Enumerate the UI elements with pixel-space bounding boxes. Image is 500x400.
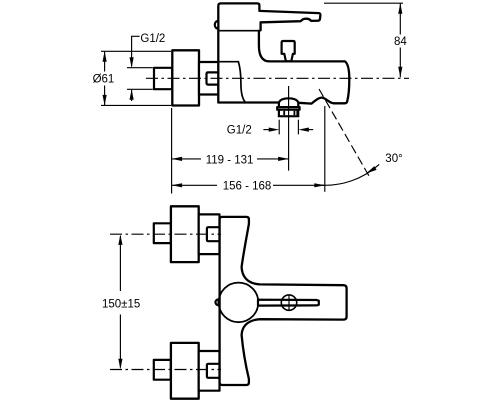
wall escutcheon (side view) xyxy=(172,50,199,105)
mixer body bar with lever handle (front view silhouette) xyxy=(220,217,347,385)
wall plane extension line xyxy=(171,108,173,194)
dimension line Ø61 upper segment xyxy=(104,51,106,71)
arrow down Ø61 xyxy=(103,95,107,106)
connection nut (side view) xyxy=(199,62,219,95)
bottom connection nut (front view) xyxy=(199,351,220,391)
svg-text:150±15: 150±15 xyxy=(102,298,140,310)
svg-text:119 - 131: 119 - 131 xyxy=(206,154,254,166)
dimension line 84 upper segment xyxy=(399,3,401,34)
mixer body with lever (side view outline) xyxy=(218,3,349,103)
svg-text:G1/2: G1/2 xyxy=(140,33,165,45)
arrow down to stub top xyxy=(130,57,134,67)
top wall escutcheon (front view) xyxy=(171,206,199,262)
spout G1/2 threaded connector (side view) xyxy=(278,110,300,118)
set-screw bump on column back (side view) xyxy=(215,21,219,29)
lever base joint line (side view) xyxy=(220,30,260,32)
arrow up Ø61 xyxy=(103,51,107,62)
spout pivot vertical line xyxy=(324,106,326,192)
arrow right to thread left edge xyxy=(263,129,269,131)
arrowhead on arc xyxy=(366,166,377,173)
svg-text:Ø61: Ø61 xyxy=(93,74,115,86)
bottom wall escutcheon (front view) xyxy=(171,343,199,399)
cartridge cover circle (front view) xyxy=(219,283,259,323)
nut inner collar (side view) xyxy=(207,72,219,84)
arrow left to thread right edge xyxy=(309,129,313,131)
diverter knob (side view) xyxy=(282,41,295,61)
handle screw head (front view) xyxy=(281,295,296,310)
spout outlet dome (side view) xyxy=(279,98,298,107)
extension line stub bottom xyxy=(127,88,153,90)
leader line G1/2 top xyxy=(132,36,140,66)
temperature limiter bump on bar left edge (front view) xyxy=(215,299,218,305)
extension line stub top xyxy=(127,67,153,69)
spout axis extension line xyxy=(288,86,290,171)
extension line spout thread right xyxy=(297,120,299,135)
arrow up 84 xyxy=(398,3,402,14)
bottom nut inner collar (front view) xyxy=(207,364,220,378)
svg-text:30°: 30° xyxy=(385,153,402,165)
wall inlet pipe stub G1/2 (side view) xyxy=(154,68,172,89)
extension line lever top xyxy=(324,2,403,4)
arrow down 84 xyxy=(398,67,402,78)
extension line escutcheon top xyxy=(101,50,171,52)
body/column intersection curve (side view) xyxy=(220,62,246,102)
tail below stub bottom arrow xyxy=(131,89,133,101)
top nut inner collar (front view) xyxy=(207,227,220,241)
30 degree arc xyxy=(319,164,379,185)
lever blade slot (front view) xyxy=(258,300,319,306)
bottom inlet center line (front view) xyxy=(110,369,221,371)
extension line spout thread left xyxy=(278,120,280,135)
top connection nut (front view) xyxy=(199,214,220,254)
top inlet center line (front view) xyxy=(110,233,221,235)
arrow up to stub bottom xyxy=(130,89,134,100)
screw vertical slot line xyxy=(288,295,290,310)
svg-text:G1/2: G1/2 xyxy=(227,125,252,137)
dimension line Ø61 lower segment xyxy=(104,86,106,106)
spout outlet flange (side view) xyxy=(277,107,299,110)
extension line escutcheon bottom xyxy=(101,104,171,106)
dimension line 84 lower segment xyxy=(399,48,401,78)
svg-text:84: 84 xyxy=(394,36,407,48)
bottom inlet pipe stub (front view) xyxy=(154,360,171,380)
svg-text:156 - 168: 156 - 168 xyxy=(223,181,272,193)
30 degree swivel dashed line xyxy=(319,89,370,177)
top inlet pipe stub (front view) xyxy=(154,223,171,243)
main axis center line (side view) xyxy=(146,77,409,79)
